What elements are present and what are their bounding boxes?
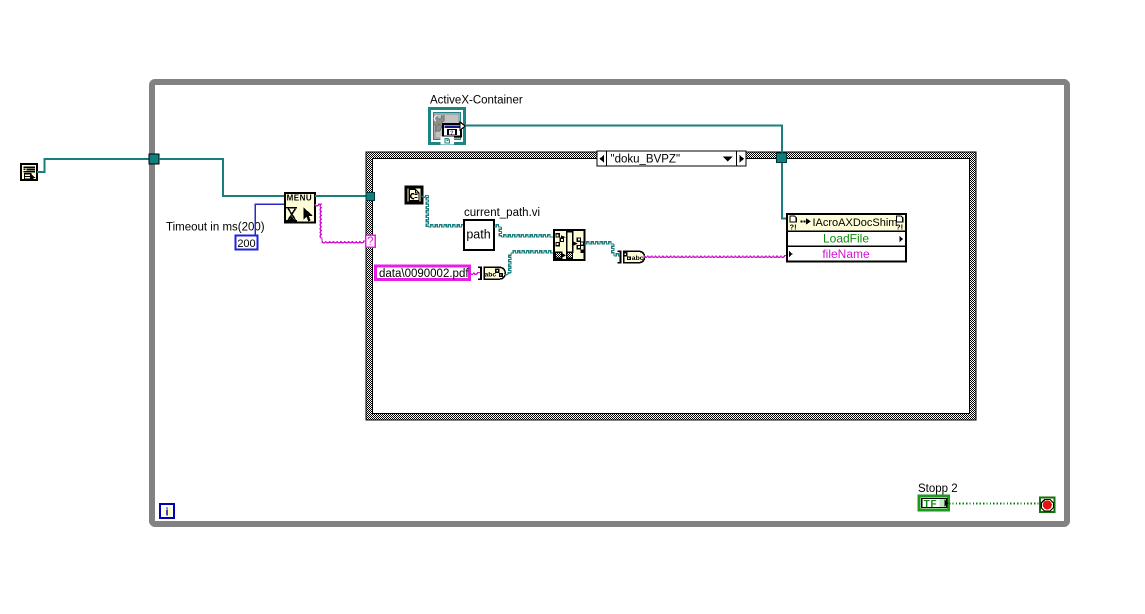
svg-text:Stopp 2: Stopp 2: [918, 483, 958, 495]
svg-text:LoadFile: LoadFile: [823, 232, 869, 246]
boolean terminal TF (Stopp 2): [919, 496, 949, 510]
case tunnel (menu ref, teal): [366, 193, 375, 201]
stop button: [1040, 498, 1055, 513]
svg-text:i: i: [165, 506, 168, 518]
svg-text:Timeout in ms(200): Timeout in ms(200): [166, 222, 265, 234]
svg-text:abc: abc: [632, 255, 644, 262]
case tunnel (ActiveX ref) on top border: [777, 153, 787, 163]
string constant data\0090002.pdf: [376, 266, 470, 280]
refnum wire ActiveX container to invoke node: [465, 126, 787, 219]
case selector tunnel ?: [366, 235, 376, 248]
path-to-string node: [618, 251, 645, 264]
svg-text:TF: TF: [924, 499, 938, 510]
case structure border (checkered): [366, 152, 976, 420]
numeric constant 200: [236, 236, 258, 250]
menu refnum control terminal: [21, 164, 37, 181]
loop tunnel (menu ref): [149, 154, 159, 164]
svg-text:?: ?: [367, 236, 373, 248]
wire loop tunnel to MENU node: [159, 159, 285, 196]
ActiveX container terminal: [430, 109, 466, 145]
wire 200 to MENU (blue): [255, 204, 285, 235]
svg-text:?!: ?!: [790, 223, 797, 232]
svg-text:?: ?: [450, 131, 454, 137]
svg-text:ActiveX-Container: ActiveX-Container: [430, 95, 523, 107]
path wire string-to-path to build-path input 2: [505, 273, 512, 275]
path wire build-path to path-to-string: [585, 242, 615, 244]
subVI current_path.vi (path box): [464, 220, 494, 250]
build path node: [554, 230, 585, 260]
while loop border: [152, 82, 1067, 524]
svg-text:IAcroAXDocShim: IAcroAXDocShim: [813, 217, 898, 229]
invoke node IAcroAXDocShim: [787, 214, 906, 262]
svg-text:?!: ?!: [896, 223, 903, 232]
svg-text:path: path: [466, 228, 490, 242]
string wire MENU item tag to case selector: [315, 204, 322, 206]
svg-text:fileName: fileName: [822, 247, 870, 261]
string-to-path node: [478, 267, 505, 280]
path wire VI ref icon to current_path.vi: [422, 196, 429, 198]
path wire current_path.vi to build-path input 1: [494, 225, 502, 227]
wire menu-ref to loop tunnel: [37, 159, 150, 172]
svg-text:MENU: MENU: [287, 194, 313, 203]
VI reference icon (page): [406, 187, 422, 203]
MENU node (Get Menu Selection): [285, 193, 315, 223]
string wire path-to-string to fileName input: [644, 256, 787, 258]
string wire constant to string-to-path: [470, 273, 481, 275]
svg-text:200: 200: [237, 238, 255, 250]
iteration terminal i: [160, 504, 174, 518]
svg-text:data\0090002.pdf: data\0090002.pdf: [379, 268, 469, 280]
svg-text:"doku_BVPZ": "doku_BVPZ": [611, 154, 681, 166]
svg-text:current_path.vi: current_path.vi: [464, 207, 540, 219]
case selector label "doku_BVPZ": [597, 151, 746, 166]
wire MENU out to case tunnel (teal): [315, 195, 367, 197]
svg-text:abc: abc: [485, 271, 497, 278]
boolean wire TF to stop button (dotted green): [949, 503, 1040, 505]
